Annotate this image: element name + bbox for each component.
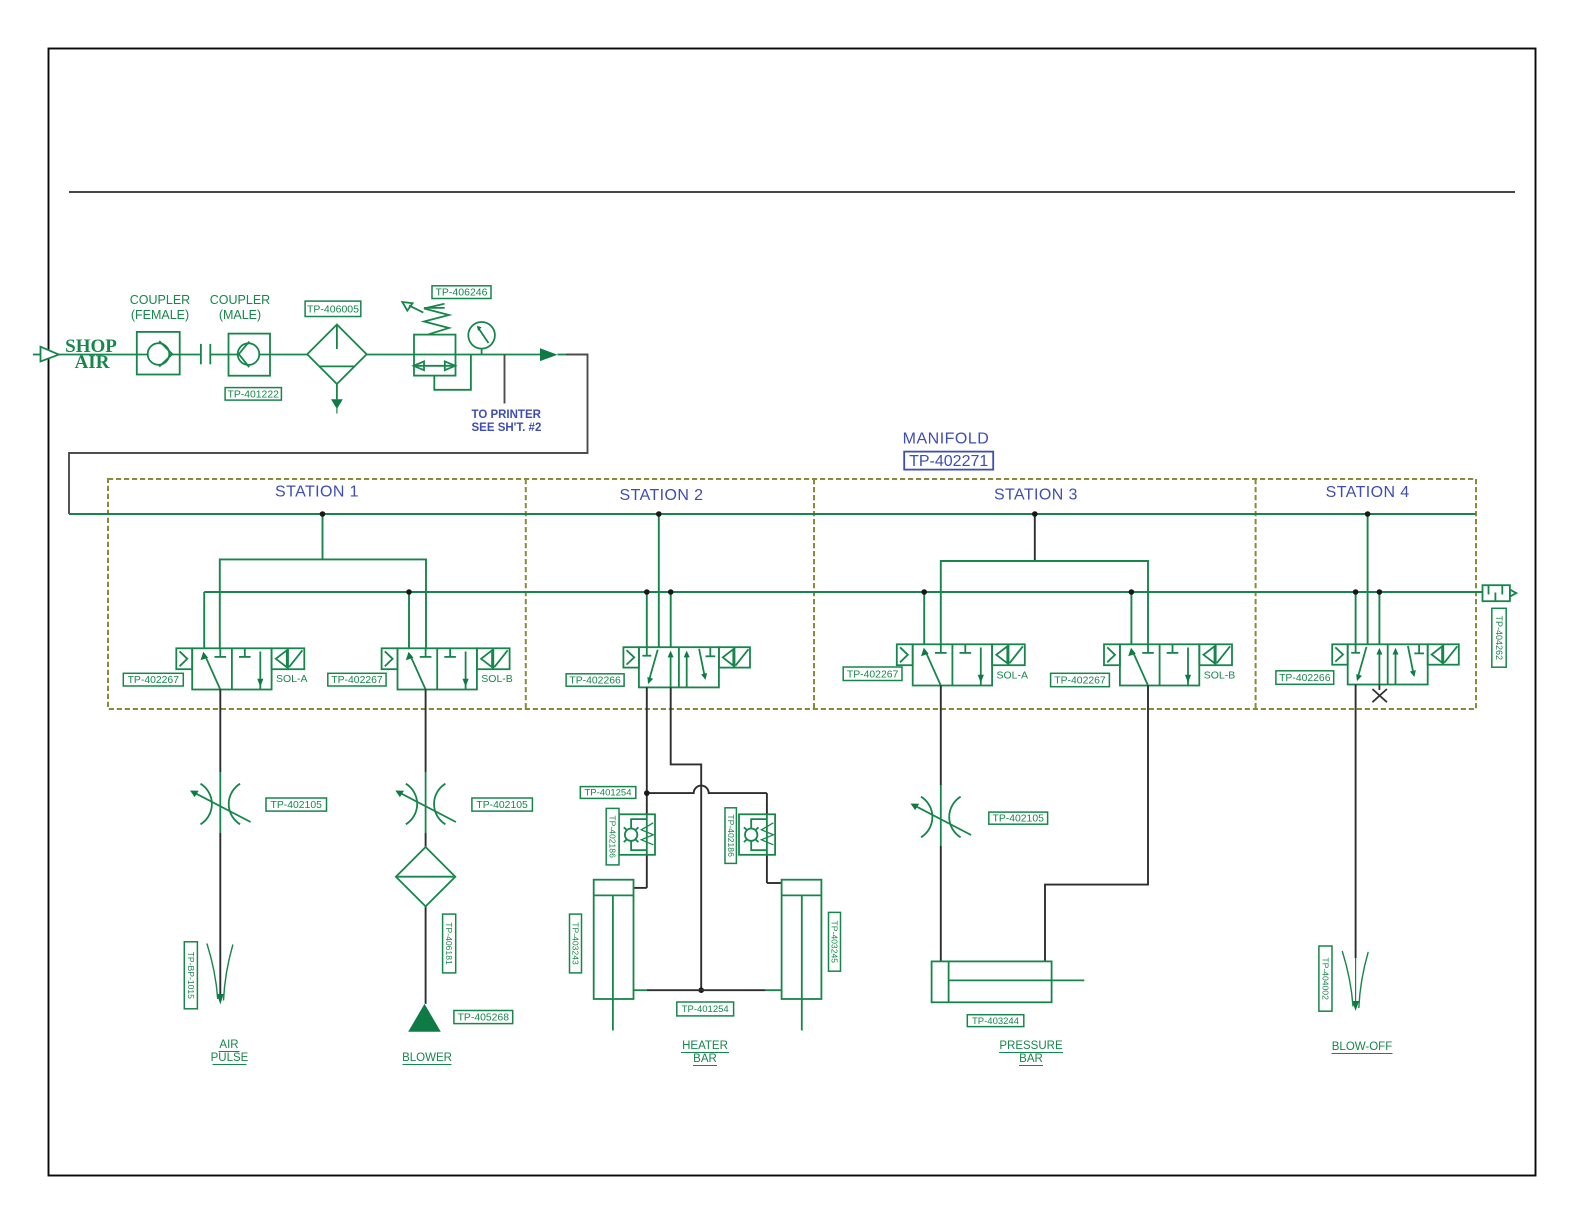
- junction station4 riser on supply bus: [1365, 511, 1371, 517]
- svg-text:TP-402267: TP-402267: [1054, 676, 1106, 687]
- svg-text:SOL-A: SOL-A: [276, 673, 308, 685]
- junction station1 riser on supply bus: [320, 511, 326, 517]
- svg-text:TP-402267: TP-402267: [331, 675, 383, 686]
- svg-text:TP-406005: TP-406005: [307, 303, 359, 315]
- label COUPLER (FEMALE): [130, 293, 190, 322]
- svg-text:SOL-B: SOL-B: [481, 673, 513, 685]
- wire coupler to filter: [270, 354, 307, 356]
- label TP-402271: [904, 452, 993, 470]
- junction heater left: [644, 790, 650, 796]
- svg-text:SOL-B: SOL-B: [1204, 670, 1236, 682]
- svg-text:TP-402105: TP-402105: [476, 800, 528, 811]
- label TP-401254 (heater port label): [580, 787, 636, 799]
- valve U3 TP-402266 (station 2): [623, 647, 750, 687]
- svg-text:TP-401254: TP-401254: [682, 1004, 729, 1015]
- regulator TP-406246: [402, 302, 471, 390]
- valve U2 TP-402267 SOL-B (station 1): [382, 648, 510, 689]
- flow arrow: [540, 348, 558, 361]
- label TP-402186 (heater restrictor L, vertical): [606, 808, 619, 865]
- svg-text:TP-402186: TP-402186: [608, 815, 618, 858]
- junction station3 valveA on pilot bus: [921, 589, 927, 595]
- label TP-404002 (blow-off, vertical): [1319, 946, 1332, 1011]
- wire station2 port3 drop: [670, 592, 672, 647]
- svg-text:BAR: BAR: [693, 1053, 717, 1065]
- label PRESSURE BAR: [999, 1040, 1063, 1065]
- coupler (female): [137, 332, 180, 375]
- cylinder TP-403244 (pressure bar): [932, 961, 1085, 1002]
- label TP-403245 (heater cyl R, vertical): [829, 912, 841, 971]
- label TP-401222 (male coupler): [225, 388, 281, 401]
- wire pressure green segment: [940, 785, 942, 846]
- svg-text:PRESSURE: PRESSURE: [999, 1040, 1063, 1052]
- wire station4 port3 drop: [1378, 592, 1380, 644]
- filter TP-406005: [307, 325, 366, 414]
- svg-text:TP-406181: TP-406181: [444, 922, 454, 965]
- label TP-406246 (regulator): [432, 286, 491, 299]
- valve U5 TP-402267 SOL-B (station 3): [1104, 644, 1232, 685]
- blower nozzle TP-405268: [408, 1004, 441, 1032]
- svg-text:TP-403244: TP-403244: [972, 1016, 1019, 1027]
- wire filter to regulator: [367, 354, 414, 356]
- label TP-403244 (pressure cyl): [967, 1015, 1024, 1027]
- svg-text:TP-402267: TP-402267: [128, 675, 180, 686]
- title separator line: [69, 191, 1515, 193]
- coupler (male) TP-401222: [229, 334, 271, 376]
- label TP-401254 (heater bottom label): [677, 1002, 734, 1016]
- junction station3 valveB on pilot bus: [1129, 589, 1135, 595]
- label TP-402105 (flowctl st1A): [266, 798, 327, 811]
- gauge: [468, 322, 495, 355]
- wire pressure left branch: [940, 686, 942, 962]
- svg-text:SOL-A: SOL-A: [997, 670, 1029, 682]
- label TP-402267 (st1 valveB): [328, 673, 386, 686]
- wire to printer branch: [504, 355, 506, 404]
- label TP-402267 (st3 valveB): [1051, 673, 1110, 686]
- svg-text:STATION 1: STATION 1: [275, 484, 359, 501]
- svg-text:TP-402267: TP-402267: [847, 669, 899, 680]
- svg-text:TP-404002: TP-404002: [1321, 957, 1331, 1000]
- wire station1 distribution: [220, 559, 426, 648]
- svg-text:TP-403245: TP-403245: [830, 921, 840, 964]
- svg-text:COUPLER: COUPLER: [210, 293, 270, 307]
- label TP-403243 (heater cyl L, vertical): [570, 914, 582, 973]
- svg-text:(MALE): (MALE): [219, 308, 261, 322]
- wire supply bus: [69, 513, 1475, 515]
- wire station1 valveA pilot drop: [203, 592, 205, 648]
- label TP-404262 (exhaust coupler, vertical): [1492, 608, 1506, 667]
- svg-text:TP-402266: TP-402266: [1279, 673, 1331, 684]
- label TP-406005 (filter): [305, 301, 361, 316]
- valve U6 TP-402266 (station 4): [1332, 644, 1459, 684]
- wire station3 valveB pilot drop: [1130, 592, 1132, 644]
- junction station2 port3 on pilot bus: [668, 589, 674, 595]
- station titles: [275, 484, 1410, 505]
- svg-text:BLOWER: BLOWER: [402, 1052, 452, 1064]
- coupler TP-404262 (manifold exhaust): [1483, 585, 1517, 601]
- label TP-405268 (blower nozzle): [454, 1011, 513, 1024]
- wire regulator to arrow: [456, 354, 541, 356]
- label TP-402267 (st3 valveA): [843, 667, 902, 681]
- label TP-402267 (st1 valveA): [123, 673, 183, 686]
- wire shop air to coupler: [59, 354, 137, 356]
- wire station3 valveA pilot drop: [923, 592, 925, 644]
- wire heater cross link with hop: [647, 786, 767, 794]
- junction station2 port1 on pilot bus: [644, 589, 650, 595]
- valve U4 TP-402267 SOL-A (station 3): [897, 644, 1025, 685]
- flow control TP-402105 (pressure): [911, 797, 972, 838]
- svg-text:TP-402105: TP-402105: [992, 814, 1044, 825]
- wire station3 riser: [1034, 514, 1036, 561]
- wire heater center return: [671, 687, 702, 990]
- node SHOP AIR inlet arrow: [33, 347, 59, 362]
- label HEATER BAR: [682, 1040, 728, 1065]
- label TP-402186 (heater restrictor R, vertical): [725, 808, 736, 864]
- svg-text:TP-BP-1015: TP-BP-1015: [186, 952, 196, 1000]
- wire station3 distribution: [941, 561, 1148, 644]
- cylinder TP-403243 (heater left): [594, 880, 634, 1031]
- svg-text:COUPLER: COUPLER: [130, 293, 190, 307]
- wire station1 riser: [322, 514, 324, 559]
- wire heater bottom link: [634, 989, 782, 991]
- label TP-BP-1015 (air pulse, vertical): [184, 942, 197, 1009]
- wire station4 riser: [1367, 514, 1369, 644]
- junction heater bottom: [698, 987, 704, 993]
- wire heater left branch: [634, 687, 647, 888]
- quick disconnect symbol: [180, 344, 229, 364]
- cylinder TP-403245 (heater right): [782, 880, 822, 1031]
- svg-text:BAR: BAR: [1019, 1053, 1043, 1065]
- label COUPLER (MALE): [210, 293, 270, 322]
- svg-text:TO PRINTER: TO PRINTER: [472, 409, 542, 421]
- wire station2 port1 drop: [646, 592, 648, 647]
- svg-text:TP-401254: TP-401254: [584, 788, 631, 799]
- svg-text:SEE SH'T. #2: SEE SH'T. #2: [472, 422, 542, 434]
- svg-text:BLOW-OFF: BLOW-OFF: [1332, 1041, 1392, 1053]
- svg-text:STATION 4: STATION 4: [1326, 484, 1410, 501]
- wire station2 riser: [658, 514, 660, 647]
- label TO PRINTER SEE SHT. #2: [472, 409, 542, 434]
- wire blow-off tip: [1355, 958, 1357, 1001]
- arrowhead air pulse: [217, 994, 224, 1005]
- svg-text:TP-403243: TP-403243: [571, 922, 581, 965]
- wire station1 valveB pilot drop: [408, 592, 410, 648]
- wire blow-off: [1355, 685, 1357, 959]
- flow control TP-402105 (air pulse): [190, 784, 251, 825]
- svg-text:HEATER: HEATER: [682, 1040, 728, 1052]
- junction station3 riser on supply bus: [1032, 511, 1038, 517]
- flow control TP-402105 (blower): [395, 784, 456, 825]
- filter TP-406181: [396, 847, 455, 906]
- check-restrictor TP-402186 (left): [619, 814, 655, 855]
- svg-text:AIR: AIR: [219, 1039, 238, 1051]
- wire air pulse green segment: [219, 772, 221, 833]
- svg-text:PULSE: PULSE: [211, 1052, 249, 1064]
- label TP-402105 (flowctl st3): [989, 812, 1048, 825]
- svg-text:TP-402186: TP-402186: [726, 814, 736, 857]
- arrowhead blow-off: [1352, 1001, 1359, 1011]
- svg-text:TP-405268: TP-405268: [458, 1013, 510, 1024]
- valve U1 TP-402267 SOL-A (station 1): [176, 648, 304, 689]
- wire station1 air pulse output: [219, 690, 221, 995]
- svg-text:TP-401222: TP-401222: [227, 389, 279, 400]
- svg-text:STATION 2: STATION 2: [620, 487, 704, 504]
- label TP-402266 (st2 valve): [566, 674, 624, 687]
- air nozzle (air pulse): [207, 944, 233, 1001]
- svg-text:TP-402105: TP-402105: [270, 800, 322, 811]
- svg-text:STATION 3: STATION 3: [994, 487, 1078, 504]
- wire pressure right branch: [1045, 686, 1148, 962]
- check-restrictor TP-402186 (right): [739, 814, 775, 855]
- svg-text:MANIFOLD: MANIFOLD: [903, 431, 990, 448]
- wire supply feed to manifold: [69, 355, 588, 515]
- junction station4 port1 on pilot bus: [1353, 589, 1359, 595]
- junction station1 valveB on pilot bus: [406, 589, 412, 595]
- label TP-406181 (blower filter, vertical): [443, 914, 456, 973]
- svg-text:TP-402266: TP-402266: [569, 676, 621, 687]
- label TP-402266 (st4 valve): [1276, 671, 1334, 685]
- junction station4 port3 on pilot bus: [1377, 589, 1383, 595]
- svg-text:TP-402271: TP-402271: [909, 453, 988, 470]
- wire heater right branch: [767, 793, 782, 883]
- wire station4 port1 drop: [1355, 592, 1357, 644]
- svg-text:TP-404262: TP-404262: [1494, 616, 1504, 661]
- wire blower green segment: [425, 772, 427, 833]
- svg-text:TP-406246: TP-406246: [436, 287, 488, 299]
- manifold TP-402271 dashed boundary: [108, 479, 1476, 709]
- air nozzle (blow-off): [1342, 951, 1368, 1008]
- label AIR PULSE: [211, 1039, 249, 1064]
- svg-text:(FEMALE): (FEMALE): [131, 308, 189, 322]
- wire arrow stub: [558, 354, 567, 356]
- plugged port X (station 4): [1372, 685, 1387, 703]
- label SHOP AIR: [65, 336, 117, 373]
- label TP-402105 (flowctl st1B): [472, 798, 533, 811]
- junction station2 riser on supply bus: [656, 511, 662, 517]
- wire station1 blower output: [425, 690, 427, 1004]
- wire pilot bus: [204, 591, 1482, 593]
